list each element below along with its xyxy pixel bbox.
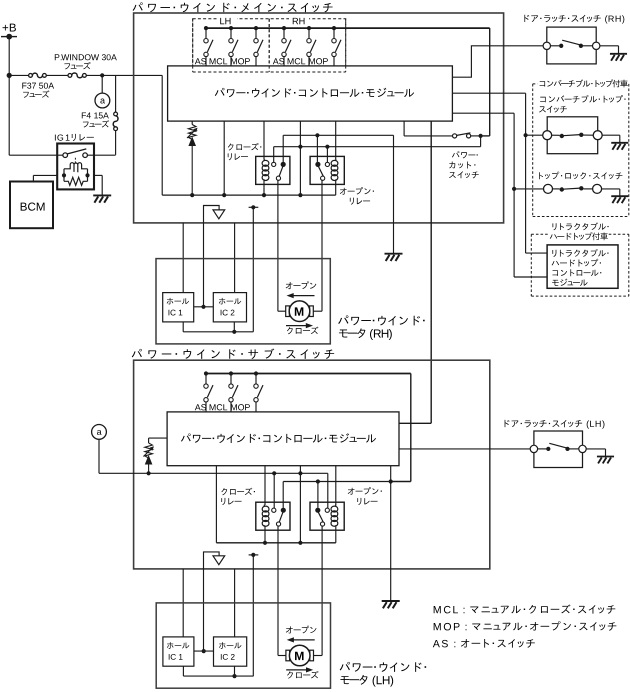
wire: IC1-IC2 link — [194, 306, 214, 308]
label: RH — [293, 18, 298, 24]
label: open relay (sub) — [348, 488, 355, 495]
wire: convertible to ground — [602, 134, 620, 136]
wire: between fuses — [46, 74, 68, 76]
label: LH — [220, 18, 224, 24]
box: power window motor LH — [156, 603, 330, 688]
wire: sub line C to open NO — [327, 473, 329, 508]
module: retractable hardtop control — [547, 245, 618, 288]
label: convertible top equipped — [540, 81, 546, 86]
label: open relay (main) — [340, 188, 347, 195]
label: close relay (main) — [228, 143, 234, 150]
wire: F4 fuse drop — [115, 75, 117, 112]
label: legend AS — [433, 640, 440, 647]
junction: +B feed split — [7, 73, 12, 78]
wire: open relay coil feed — [335, 121, 337, 159]
box: switch dashed enclosure — [193, 19, 346, 72]
label: close arrow — [286, 669, 309, 671]
wire: B+ to IG1 relay contact — [8, 75, 10, 155]
module U2: power window control module (sub) — [167, 412, 399, 466]
junction: IC2 bottom — [232, 330, 236, 334]
junction: sub bus pin — [298, 541, 302, 545]
wire: hall feed drop (sub) — [252, 555, 254, 676]
wire: main B+ bus — [162, 194, 336, 196]
box: power window main switch — [134, 13, 504, 223]
hall IC1 box (LH) — [163, 637, 194, 666]
wire: bus riser to power cut — [489, 28, 491, 136]
label: convertible top switch — [540, 97, 546, 102]
wire: IC1 feed from box (main) — [182, 223, 184, 293]
resistor (sub, with arrow) — [149, 437, 168, 439]
junction: bus pin2 — [298, 193, 302, 197]
wire: node a to sub B+ line — [98, 439, 100, 473]
wire: sub relay bottoms to motor LH — [277, 526, 279, 656]
wire: IC1-IC2 link — [194, 650, 214, 652]
relay: open (main) — [310, 156, 344, 184]
box: power window motor RH — [156, 259, 330, 344]
hall IC2 box (RH) — [213, 293, 246, 322]
box: power window sub switch — [134, 360, 490, 569]
switch: power cut — [453, 134, 457, 138]
label: door latch switch LH — [505, 420, 510, 427]
junction: top lock tap — [512, 187, 516, 191]
motor M (RH) — [286, 306, 290, 317]
wire: sub module to door latch LH — [399, 448, 533, 450]
label: close arrow — [286, 325, 309, 327]
wire: door latch RH to ground — [600, 45, 619, 47]
wire: IG1 coil to BCM — [33, 174, 57, 176]
junction: power-cut node — [479, 134, 483, 138]
junction: open COM tap — [315, 133, 319, 137]
label: power window motor RH — [338, 315, 348, 324]
module U1: power window control module (main) — [168, 66, 453, 121]
hall IC2 box (LH) — [214, 637, 247, 666]
label: open arrow — [286, 626, 293, 633]
switch MOP (sub) — [254, 371, 258, 375]
wire: sub ground drop — [390, 482, 392, 602]
label: power window main switch title — [133, 2, 143, 11]
junction: sub line C close NO — [272, 471, 276, 475]
label: legend MCL — [434, 606, 441, 613]
wire: IC bottoms — [182, 322, 184, 332]
wire: line B riser to power-cut node — [480, 136, 482, 147]
switch: convertible top — [547, 117, 598, 154]
wire: module to top lock switch — [452, 112, 514, 114]
motor M (LH) — [286, 650, 290, 661]
wire: triangle marker feed (main) — [204, 206, 220, 307]
node a connector (main) — [95, 93, 110, 108]
label: AS MCL MOP (sub) — [195, 404, 201, 410]
wire: module to convertible switch — [452, 92, 525, 94]
junction: hall link — [201, 305, 205, 309]
label: retractable hardtop equipped — [553, 223, 557, 230]
junction: bus close coil — [262, 193, 266, 197]
wire: sub switch bus — [206, 373, 411, 375]
wire: ground drop from COM line — [393, 135, 395, 253]
wire: close relay coil feed — [263, 121, 265, 159]
label: door latch switch RH — [524, 15, 529, 22]
switch MOP LH (main) — [254, 26, 258, 30]
box: retractable hardtop dashed — [531, 233, 549, 235]
fuse P.WINDOW 30A — [68, 74, 72, 78]
wire: IC bottoms — [182, 666, 184, 676]
resistor (main, with arrow) — [191, 121, 193, 124]
relay: close (main) — [256, 156, 290, 184]
wire: sub coil return bus — [216, 542, 335, 544]
relay: close (sub) — [256, 502, 290, 530]
wire: triangle marker feed (sub) — [204, 552, 220, 651]
wire: sub module pins to coils — [264, 466, 266, 505]
node +B battery terminal — [3, 25, 9, 31]
node a connector (sub) — [92, 425, 107, 440]
switch: top lock — [544, 184, 553, 193]
marker: triangle down (main) — [213, 210, 225, 219]
junction: open NO tap — [325, 145, 329, 149]
junction: fuse output — [100, 73, 104, 77]
ground main COM — [385, 253, 403, 255]
label: top lock switch — [539, 172, 543, 179]
junction: line B pin riser — [298, 145, 302, 149]
junction: IC2 bottom — [232, 674, 236, 678]
junction: sub line C pin riser — [298, 471, 302, 475]
wire: sub module pin to power node — [390, 466, 392, 482]
box: switch dashed enclosure (over module) — [193, 71, 346, 73]
fuse F4 15A — [114, 112, 118, 116]
wire: module pin to bus (x224) — [223, 121, 225, 195]
wire: door latch LH to ground — [586, 448, 605, 450]
fuse F37 50A — [29, 74, 33, 78]
wire: B+ entry into main switch — [161, 75, 163, 195]
switch MCL LH (main) — [229, 26, 233, 30]
wire: top lock line to retractable module — [514, 276, 547, 278]
ground IG1 relay — [93, 194, 111, 196]
wire: relay bottoms to motor RH — [277, 180, 279, 311]
switch AS LH (main) — [204, 26, 208, 30]
junction: sub power node — [389, 479, 393, 483]
box: convertible top dashed — [533, 83, 538, 85]
wire: IC2 feed from box (sub) — [234, 569, 236, 637]
junction: hall feed node (main) — [251, 205, 255, 209]
wire: +B feed horizontal — [9, 74, 29, 76]
wire: sub bus riser — [410, 374, 412, 482]
switch MCL RH (main) — [307, 26, 311, 30]
wire: convertible line to retractable module — [526, 252, 548, 254]
wire: IG1 coil to ground — [94, 174, 102, 176]
wire: module pin to power cut switch — [403, 121, 405, 136]
label: AS MCL MOP (main RH) — [273, 58, 279, 64]
label: power window sub switch title — [132, 349, 142, 358]
wire: drop to node a — [101, 75, 103, 93]
wire: F4 to IG1 relay — [115, 131, 117, 155]
label: close relay (sub) — [221, 488, 227, 495]
switch MCL (sub) — [229, 371, 233, 375]
hall IC1 box (RH) — [163, 293, 194, 322]
wire: module pin to bus (x300) — [299, 121, 301, 195]
wire: sub COM line D — [283, 481, 391, 483]
switch: door latch LH — [534, 431, 583, 468]
relay IG1 — [54, 135, 57, 141]
marker: triangle down (sub) — [213, 556, 225, 565]
junction: sub resistor — [147, 471, 151, 475]
wire: switch bus — [206, 27, 490, 29]
ground sub — [382, 600, 400, 602]
wire: fuse output to main switch — [86, 74, 162, 76]
wire: module to door latch RH — [452, 46, 543, 77]
junction: sub bus close coil — [263, 541, 267, 545]
junction: hall feed node (sub) — [251, 553, 255, 557]
switch MOP RH (main) — [332, 26, 336, 30]
switch AS (sub) — [204, 371, 208, 375]
box BCM — [10, 182, 53, 229]
ground convertible switch — [611, 142, 628, 144]
label: AS MCL MOP (main LH) — [195, 58, 201, 64]
junction: sub open COM tap — [316, 479, 320, 483]
label: power window motor LH — [340, 662, 350, 671]
wire: sub module pin riser x300 — [299, 466, 301, 543]
ground door latch LH — [597, 456, 614, 458]
wire: COM line A — [283, 134, 393, 136]
wire: NO line B — [274, 146, 481, 148]
label: open arrow — [286, 282, 293, 289]
wire: IC1 feed from box (sub) — [182, 569, 184, 637]
label: power cut switch — [452, 151, 459, 157]
switch AS RH (main) — [282, 26, 286, 30]
junction: hall link — [202, 649, 206, 653]
relay: open (sub) — [310, 502, 344, 530]
wire: main module to sub module — [430, 121, 432, 423]
label: legend MOP — [434, 623, 441, 630]
ground door latch RH — [610, 53, 627, 55]
wire: top lock to ground — [602, 188, 620, 190]
junction: bus pin1 — [222, 193, 226, 197]
wire: hall feed drop (main) — [252, 207, 254, 331]
junction: convertible tap — [524, 133, 528, 137]
wire: IC2 feed from box (main) — [234, 223, 236, 293]
junction: bus resistor — [190, 193, 194, 197]
ground top lock switch — [611, 195, 628, 197]
wire: +B vertical — [8, 37, 10, 76]
switch: door latch RH — [547, 27, 596, 64]
